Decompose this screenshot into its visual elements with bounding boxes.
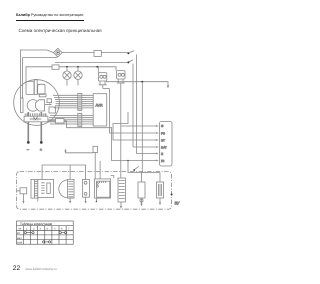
svg-text:ВЫК: ВЫК [17, 241, 23, 244]
svg-text:E: E [161, 152, 163, 156]
svg-text:AVR: AVR [96, 104, 104, 108]
svg-text:ЗУ: ЗУ [175, 201, 180, 206]
svg-text:Таблица коммутации: Таблица коммутации [20, 222, 52, 226]
svg-text:ВТ: ВТ [17, 232, 21, 235]
svg-text:№: № [19, 228, 22, 231]
svg-text:BAT: BAT [161, 145, 167, 149]
svg-text:ST: ST [161, 138, 165, 142]
svg-text:+: + [40, 147, 43, 152]
svg-text:−: − [27, 147, 30, 152]
svg-text:FS: FS [161, 131, 165, 135]
svg-text:Вкл: Вкл [17, 237, 22, 240]
svg-text:IG: IG [161, 159, 165, 163]
